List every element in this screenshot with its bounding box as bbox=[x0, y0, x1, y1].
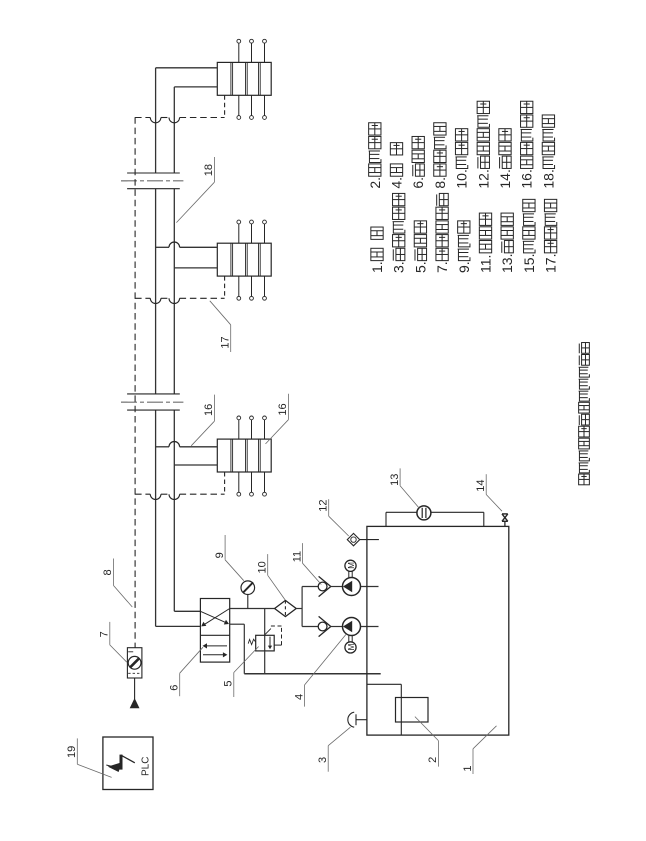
wire supply branch pipeA to middle mixer (15) bbox=[156, 246, 169, 248]
mixer top (18-group) air riser dashed bbox=[224, 95, 226, 117]
label 8 leader bbox=[112, 559, 114, 586]
svg-text:3: 3 bbox=[317, 757, 329, 763]
wire air-main dashed vertical (net 8) bbox=[134, 117, 136, 647]
svg-text:8.: 8. bbox=[432, 177, 448, 189]
motor M lower bbox=[345, 642, 356, 653]
check valve 11 lower bbox=[302, 626, 318, 628]
wire air branch to bottom mixer (net 17) bbox=[135, 493, 150, 495]
label 6 leader bbox=[179, 673, 181, 696]
wire air branch to top mixer (net 17) bbox=[135, 117, 150, 119]
wire supply branch pipeB to middle mixer (15) bbox=[174, 267, 217, 269]
oil-gas mixer block bottom (16-group) bbox=[217, 439, 271, 472]
svg-text:14: 14 bbox=[475, 479, 487, 491]
svg-text:12: 12 bbox=[318, 500, 330, 512]
svg-text:1.: 1. bbox=[369, 261, 385, 273]
label 16 left leader bbox=[213, 395, 215, 422]
svg-text:2: 2 bbox=[427, 757, 439, 763]
magnetic filter 2 bbox=[396, 698, 429, 723]
mixer top (18-group) outlet pins bbox=[238, 43, 240, 62]
valve 6 crossed arrows bbox=[200, 611, 227, 623]
svg-text:9.: 9. bbox=[456, 261, 472, 273]
air breather 3 bbox=[356, 719, 367, 721]
svg-text:16.: 16. bbox=[519, 169, 535, 188]
wire supply branch pipeB to bottom mixer (15) bbox=[174, 464, 217, 466]
level signal 12 bbox=[347, 533, 359, 545]
label 17 leader bbox=[230, 325, 232, 352]
valve 6 parallel arrows bbox=[205, 645, 227, 647]
filter 10 diamond bbox=[275, 600, 297, 616]
mixer bottom (16-group) air riser dashed bbox=[224, 472, 226, 494]
svg-text:1: 1 bbox=[462, 765, 474, 771]
svg-text:7: 7 bbox=[99, 631, 111, 637]
label 14 leader bbox=[485, 474, 487, 494]
svg-text:8: 8 bbox=[102, 569, 114, 575]
svg-text:M: M bbox=[347, 643, 356, 650]
label 11 leader bbox=[302, 543, 304, 563]
svg-text:16: 16 bbox=[277, 403, 289, 415]
label 19 leader bbox=[76, 738, 78, 764]
label 4 leader bbox=[304, 685, 306, 707]
wire filter to manifold bbox=[296, 608, 302, 610]
svg-text:PLC: PLC bbox=[140, 757, 151, 776]
svg-text:5.: 5. bbox=[412, 261, 428, 273]
pipe break symbol upper bbox=[127, 172, 180, 174]
pipe break symbol lower bbox=[127, 393, 180, 395]
svg-text:4: 4 bbox=[293, 694, 305, 700]
PLC lightning arrow bbox=[121, 755, 135, 763]
mixer middle (17-group) outlet pins bbox=[238, 224, 240, 243]
svg-text:7.: 7. bbox=[434, 261, 450, 273]
wire pipe B to valve port bbox=[174, 610, 200, 612]
oil tank 1 bbox=[367, 526, 509, 735]
pressure gauge 9 bbox=[241, 581, 255, 595]
air source triangle bbox=[134, 678, 136, 699]
level gauge 13 bbox=[385, 512, 387, 526]
svg-text:11.: 11. bbox=[478, 255, 494, 273]
svg-text:15.: 15. bbox=[521, 254, 537, 273]
label 3 leader bbox=[327, 746, 329, 772]
svg-text:3.: 3. bbox=[391, 261, 407, 273]
relief valve 5 pilot dashed bbox=[274, 644, 281, 646]
svg-text:19: 19 bbox=[66, 746, 78, 758]
wire supply branch pipeA to top mixer bbox=[156, 67, 218, 69]
svg-text:17.: 17. bbox=[543, 254, 559, 273]
PLC controller 19 box bbox=[103, 737, 153, 790]
label 1 leader bbox=[472, 749, 474, 774]
svg-text:12.: 12. bbox=[475, 169, 491, 188]
svg-text:5: 5 bbox=[223, 680, 235, 686]
title 双线式油气润滑系统原理图 bbox=[579, 474, 590, 485]
directional valve 6 body bbox=[200, 599, 229, 663]
wire valve return to tank bbox=[230, 623, 245, 625]
wire oil pipe B vertical (net 18) bbox=[173, 87, 175, 173]
wire supply branch pipeA to bottom mixer (15) bbox=[156, 446, 169, 448]
label 7 leader bbox=[109, 622, 111, 645]
wire pipe A to valve port bbox=[156, 625, 201, 627]
mixer bottom (16-group) outlet pins bbox=[238, 420, 240, 439]
pump 4 lower bbox=[343, 618, 361, 636]
pump 4 upper bbox=[343, 578, 361, 596]
wire junction to relief valve bbox=[264, 609, 266, 651]
label 9 leader bbox=[224, 535, 226, 560]
oil-gas mixer block middle (17-group) bbox=[217, 243, 271, 276]
svg-text:11: 11 bbox=[291, 551, 303, 562]
svg-text:13.: 13. bbox=[499, 254, 515, 273]
svg-text:18.: 18. bbox=[540, 169, 556, 188]
svg-text:14.: 14. bbox=[497, 169, 513, 188]
oil-gas mixer block top (18-group) bbox=[217, 62, 271, 95]
wire supply branch pipeB to top mixer bbox=[174, 86, 217, 88]
wire oil pipe A vertical (net 18) bbox=[155, 68, 157, 173]
drain valve 14 bbox=[504, 521, 506, 526]
label 18 leader bbox=[213, 157, 215, 182]
svg-text:13: 13 bbox=[389, 474, 401, 486]
motor M upper bbox=[345, 560, 356, 571]
wire valve to manifold (junction) bbox=[230, 608, 275, 610]
FRL unit 7 body bbox=[127, 648, 141, 678]
svg-text:9: 9 bbox=[214, 552, 226, 558]
wire pump manifold vertical bbox=[301, 587, 303, 627]
label 5 leader bbox=[233, 673, 235, 698]
mixer middle (17-group) air riser dashed bbox=[224, 276, 226, 298]
label 2 leader bbox=[437, 741, 439, 767]
svg-text:10: 10 bbox=[257, 561, 269, 573]
check valve 11 upper bbox=[302, 586, 318, 588]
svg-text:18: 18 bbox=[203, 164, 215, 176]
tank internal partition bbox=[367, 683, 401, 685]
svg-text:4.: 4. bbox=[389, 177, 405, 189]
relief valve 5 body bbox=[256, 635, 275, 651]
label 10 leader bbox=[267, 554, 269, 575]
svg-text:10.: 10. bbox=[454, 169, 470, 188]
svg-text:17: 17 bbox=[220, 336, 232, 348]
svg-text:2.: 2. bbox=[367, 177, 383, 189]
relief valve 5 spring bbox=[248, 639, 255, 644]
svg-text:6: 6 bbox=[169, 685, 181, 691]
svg-text:6.: 6. bbox=[410, 177, 426, 189]
svg-text:M: M bbox=[347, 562, 356, 569]
wire relief valve to return bbox=[264, 651, 266, 674]
wire air branch to middle mixer (net 17) bbox=[135, 297, 150, 299]
svg-text:16: 16 bbox=[203, 404, 215, 416]
label 16 right leader bbox=[287, 394, 289, 420]
label 13 leader bbox=[399, 468, 401, 485]
label 12 leader bbox=[328, 499, 330, 516]
